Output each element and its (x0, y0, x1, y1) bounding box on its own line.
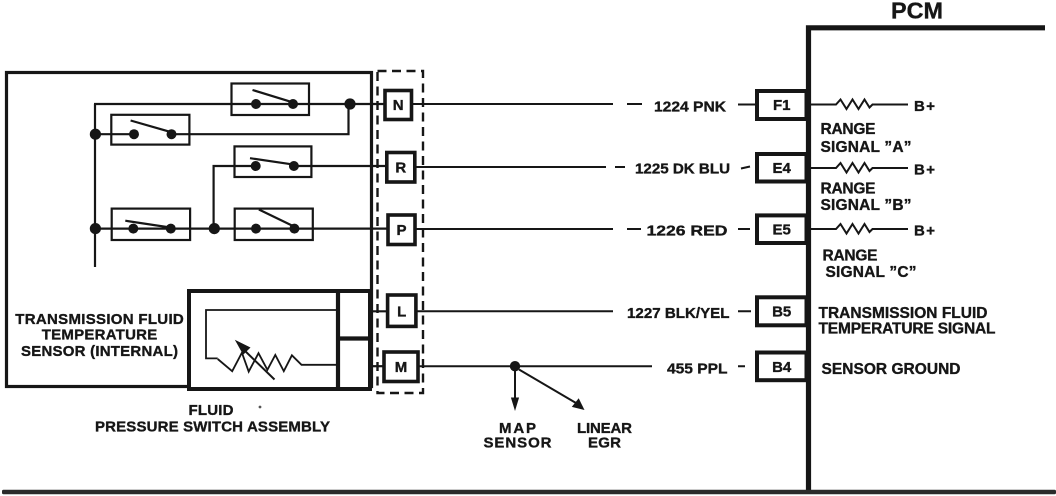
svg-text:SIGNAL ”C”: SIGNAL ”C” (826, 264, 917, 281)
wire left bus vertical (94, 104, 96, 267)
pin M (384, 352, 418, 382)
svg-text:SENSOR: SENSOR (484, 434, 552, 451)
wire M to label 455 (418, 365, 745, 367)
wire L to label 1227 (416, 310, 751, 312)
PCM module boundary (809, 28, 1046, 491)
svg-text:1226 RED: 1226 RED (647, 222, 728, 239)
svg-text:L: L (397, 303, 406, 320)
resistor pull-up B (811, 163, 908, 173)
wire R to label 1225 (415, 167, 750, 169)
sensor cell divider vertical (336, 291, 340, 389)
node on left bus (90, 129, 101, 140)
svg-text:RANGE: RANGE (821, 121, 876, 138)
svg-text:SIGNAL ”B”: SIGNAL ”B” (821, 197, 912, 214)
svg-text:FLUID: FLUID (189, 402, 234, 419)
wire L row (370, 310, 388, 312)
wire left bus to S2 (95, 133, 134, 135)
thermistor inner rectangle wire (206, 310, 336, 358)
pin N (385, 91, 412, 120)
terminal B4 (757, 353, 807, 381)
node join to N wire (344, 98, 355, 109)
bottom scan bar (2, 490, 1056, 494)
svg-text:PCM: PCM (891, 0, 943, 24)
switch S1 (232, 84, 310, 116)
sensor cell divider horizontal (338, 336, 370, 340)
arrow to MAP sensor (511, 370, 519, 411)
svg-text:M: M (395, 359, 408, 376)
svg-text:SENSOR (INTERNAL): SENSOR (INTERNAL) (21, 343, 178, 360)
svg-text:F1: F1 (773, 97, 791, 114)
terminal F1 (757, 91, 807, 119)
switch S4 (112, 209, 190, 240)
svg-text:EGR: EGR (588, 434, 621, 451)
svg-text:B +: B + (914, 223, 935, 240)
svg-text:B +: B + (914, 98, 935, 115)
svg-text:PRESSURE SWITCH ASSEMBLY: PRESSURE SWITCH ASSEMBLY (95, 418, 330, 435)
node on left bus P row (90, 223, 101, 234)
pin L (388, 295, 416, 326)
svg-text:1227 BLK/YEL: 1227 BLK/YEL (627, 305, 730, 322)
pin R (387, 153, 415, 183)
arrow to linear EGR (519, 370, 585, 411)
svg-text:1224 PNK: 1224 PNK (654, 98, 726, 115)
svg-text:SIGNAL ”A”: SIGNAL ”A” (821, 139, 912, 156)
terminal E4 (757, 154, 807, 182)
wire P row (95, 228, 388, 230)
svg-text:1225 DK BLU: 1225 DK BLU (635, 161, 730, 178)
switch S2 (111, 115, 189, 145)
node mid P row (209, 223, 220, 234)
svg-text:TEMPERATURE: TEMPERATURE (42, 326, 158, 343)
terminal B5 (757, 297, 807, 325)
pin P (388, 215, 415, 245)
fluid pressure switch assembly outer box (7, 73, 372, 387)
wire M row (370, 365, 384, 367)
node MAP/EGR tap (510, 361, 520, 371)
wire R row to pin R (294, 165, 386, 167)
wire N to label 1224 (412, 103, 758, 106)
svg-text:TRANSMISSION FLUID: TRANSMISSION FLUID (819, 305, 988, 322)
resistor pull-up A (811, 100, 908, 110)
wire P to label 1226 (415, 228, 750, 230)
svg-text:B4: B4 (772, 359, 792, 376)
thermistor arrow (235, 340, 275, 380)
terminal E5 (757, 215, 807, 243)
temperature sensor box (189, 291, 370, 389)
svg-text:SENSOR GROUND: SENSOR GROUND (822, 361, 961, 378)
switch S5 (235, 209, 313, 240)
svg-text:RANGE: RANGE (821, 180, 876, 197)
switch S3 (235, 146, 312, 177)
svg-text:RANGE: RANGE (823, 248, 878, 265)
thermistor zigzag resistor (218, 353, 336, 372)
svg-text:E4: E4 (773, 160, 792, 177)
svg-text:B5: B5 (772, 304, 791, 321)
svg-text:455 PPL: 455 PPL (667, 361, 728, 378)
svg-text:B +: B + (914, 162, 935, 179)
svg-text:N: N (393, 97, 404, 114)
wire S2 output to node N (172, 104, 349, 134)
svg-text:P: P (396, 222, 406, 239)
resistor pull-up C (811, 224, 908, 234)
svg-text:E5: E5 (773, 222, 791, 239)
svg-text:R: R (395, 159, 406, 176)
wire N row from switches to pin N (94, 103, 385, 105)
svg-text:TEMPERATURE SIGNAL: TEMPERATURE SIGNAL (819, 321, 996, 338)
scan speck (259, 406, 262, 409)
connector dashed box (378, 71, 424, 393)
wire R row riser from P bus to switch S3 (214, 166, 256, 229)
